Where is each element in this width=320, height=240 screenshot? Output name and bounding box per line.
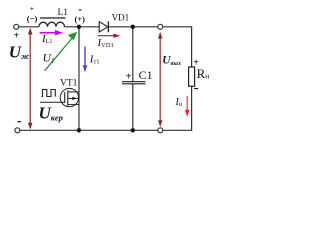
node circle Uout bottom [158,128,163,133]
wire top: input terminal to inductor [19,26,39,28]
terminal bottom-left [15,128,20,133]
svg-text:+: + [14,31,20,42]
svg-text:(−): (−) [27,13,38,23]
voltage arrow U_1 (green diagonal) [45,32,78,71]
wire C1 branch upper [132,27,134,82]
polarity mark - right of L1 [79,9,82,11]
current arrow I_L1 (magenta) [40,30,63,36]
svg-text:+: + [193,57,199,68]
svg-text:VT1: VT1 [60,79,78,89]
MOSFET source lead [68,104,79,106]
voltage arrow U_out (double-headed, dark red) [158,32,162,127]
minus at input bottom [18,121,22,123]
current arrow I_T1 (blue) [83,47,88,73]
svg-text:L1: L1 [58,8,69,18]
wire VT1 branch [78,27,80,131]
MOSFET VT1 circle [60,88,78,106]
gate pulse symbol [42,90,56,97]
wire top: diode to right corner [108,26,192,28]
svg-text:+: + [30,4,34,13]
inductor L1 coil [39,22,65,27]
MOSFET channel bar [67,90,69,106]
node dot top C1 [131,25,135,29]
capacitor C1 plates [122,81,146,83]
terminal top-left [14,24,19,29]
node dot bottom C1 [131,128,135,132]
MOSFET drain lead [68,91,79,93]
diode VD1 [99,21,108,32]
current arrow I_n (red) [185,96,190,117]
minus at resistor [194,88,198,90]
node dot top VT1 [77,25,81,29]
svg-text:+: + [126,71,132,82]
inductor L1 core bar [40,17,66,19]
current arrow I_VD1 (dark crimson) [98,34,120,38]
wire top: inductor to diode [65,26,100,28]
wire C1 branch lower [132,84,134,131]
svg-text:C1: C1 [139,68,153,82]
MOSFET body lead with arrow [68,97,79,99]
node circle Uout top [158,24,163,29]
svg-text:VD1: VD1 [112,13,130,23]
MOSFET gate lead [40,101,65,103]
node dot bottom VT1 [77,128,81,132]
svg-text:(+): (+) [75,14,86,24]
wire right vertical upper [191,27,193,67]
resistor Rn [189,67,195,86]
wire bottom [20,129,192,131]
MOSFET gate bar [64,92,66,103]
wire right vertical lower [191,86,193,131]
voltage arrow U_zh (double-headed, dark red) [28,28,33,130]
